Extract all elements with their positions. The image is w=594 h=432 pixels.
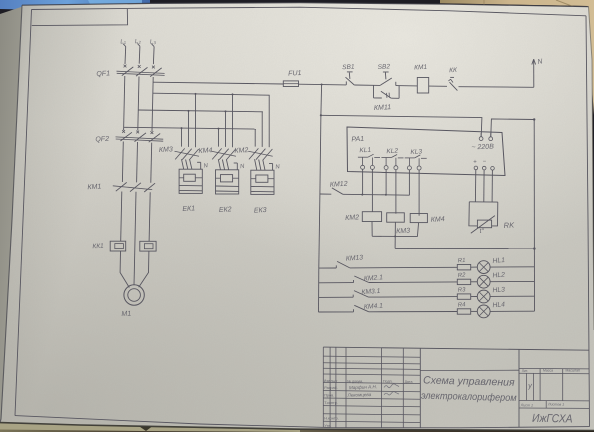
wire lamp row 1 right: [490, 266, 534, 268]
wire lamp row 4 middle: [369, 311, 458, 313]
svg-text:R1: R1: [458, 258, 466, 265]
svg-text:КМ11: КМ11: [374, 104, 392, 112]
svg-text:SB1: SB1: [342, 64, 355, 72]
auxiliary contact КМ13: [336, 261, 350, 268]
wire group2 pole1 to heater: [218, 159, 220, 170]
wire KK to N riser: [459, 86, 534, 89]
svg-text:HL3: HL3: [492, 286, 505, 294]
svg-text:КК1: КК1: [92, 243, 104, 251]
resistor R4: [457, 309, 470, 314]
wire dropper group3 pole1: [254, 129, 256, 147]
svg-text:~ 220В: ~ 220В: [471, 144, 494, 152]
svg-text:KL3: KL3: [410, 148, 422, 156]
svg-text:КМ1: КМ1: [414, 64, 428, 72]
power terminals ~220V of PA1: [479, 133, 492, 141]
svg-text:HL1: HL1: [492, 257, 505, 265]
wire QF2 pole2 to KM1: [136, 142, 139, 182]
svg-text:Лист 1: Лист 1: [520, 403, 533, 407]
svg-text:Н.контр.: Н.контр.: [324, 417, 339, 421]
wire lamp row 2 right: [490, 280, 534, 282]
svg-text:электрокалорифером: электрокалорифером: [421, 390, 517, 404]
heater ЕК1 box: [179, 169, 202, 193]
lamp HL2: [477, 275, 490, 288]
wire dropper group3 pole2: [261, 112, 263, 147]
resistor R1: [457, 265, 470, 270]
contactor coil KM1: [417, 78, 428, 94]
svg-text:R2: R2: [458, 273, 467, 280]
svg-text:Подп.: Подп.: [383, 380, 393, 384]
svg-text:КМ2.1: КМ2.1: [364, 274, 384, 282]
svg-text:FU1: FU1: [288, 70, 302, 78]
svg-text:ЕК2: ЕК2: [219, 206, 232, 214]
relay contact KL1 inside PA1: [358, 154, 380, 169]
contactor coil KM4: [410, 214, 427, 223]
svg-text:Листов 1: Листов 1: [547, 402, 564, 406]
circuit breaker QF2: [116, 130, 164, 142]
heater ЕК2 element: [221, 175, 233, 182]
svg-text:Масштаб: Масштаб: [566, 368, 581, 372]
auxiliary contact KM1.2: [361, 194, 363, 196]
wire phase riser down (left): [320, 85, 323, 116]
wire lamp row 3 right: [490, 295, 534, 297]
signature scribble 2: [384, 392, 399, 395]
contactor contacts КМ4: [212, 148, 237, 160]
paper top edge: [22, 3, 589, 7]
neutral connection of ЕК1: [200, 162, 202, 169]
wire lamp row 4 right: [490, 310, 534, 312]
wire SB1 to SB2: [354, 84, 380, 86]
wire lamp row 2 middle: [369, 281, 458, 284]
svg-text:Утв.: Утв.: [324, 424, 331, 428]
motor M1: [124, 285, 144, 305]
pushbutton SB2 (NO): [380, 72, 396, 86]
contactor coil KM3: [387, 213, 405, 222]
wire SB2 to KM1 coil: [396, 85, 418, 87]
svg-text:КМ3.1: КМ3.1: [361, 288, 381, 296]
svg-text:М1: М1: [121, 310, 131, 318]
heater ЕК1 element: [184, 174, 196, 181]
paper left edge: [0, 5, 22, 422]
svg-text:QF2: QF2: [95, 136, 109, 144]
svg-text:ЕК3: ЕК3: [254, 207, 267, 215]
wire resistor to lamp 1: [471, 266, 478, 268]
terminal stubs KL3: [408, 170, 410, 196]
svg-text:ИжГСХА: ИжГСХА: [532, 413, 573, 426]
wire resistor to lamp 2: [471, 281, 478, 283]
svg-text:КМ12: КМ12: [330, 181, 348, 189]
svg-text:КМ3: КМ3: [159, 146, 173, 154]
svg-text:КМ2: КМ2: [234, 147, 248, 155]
paper bottom edge: [0, 423, 594, 431]
svg-text:Разраб.: Разраб.: [324, 386, 338, 390]
wire KM1 pole1 down: [121, 192, 122, 242]
contactor contacts КМ3: [175, 148, 200, 160]
neutral connection of ЕК3: [272, 164, 274, 171]
wire lamp row 3 left: [319, 296, 354, 298]
wire QF1 pole3 to QF2: [152, 77, 153, 131]
wire lamp row 3 middle: [369, 296, 458, 299]
svg-text:Дата: Дата: [405, 380, 413, 384]
svg-text:КМ3: КМ3: [396, 228, 410, 236]
relay contact KL3 inside PA1: [405, 155, 427, 170]
top-left stamp box: [32, 9, 128, 26]
paper right edge: [589, 7, 594, 330]
svg-text:HL2: HL2: [492, 272, 505, 280]
wire dropper group1 pole2: [188, 111, 190, 147]
wire QF1 pole2 to QF2: [138, 77, 139, 131]
drawing border frame: [32, 7, 587, 16]
wire dropper group1 pole1: [181, 128, 183, 147]
fuse FU1: [283, 81, 298, 87]
sensor terminals of PA1: [474, 166, 494, 170]
svg-text:Лекомцева: Лекомцева: [347, 392, 372, 398]
wire dropper group2 pole1: [218, 129, 220, 147]
controller PA1 box: [347, 127, 505, 176]
svg-text:КМ13: КМ13: [346, 254, 364, 262]
wire group1 pole1 to heater: [182, 159, 184, 169]
wire lamp row 4 left: [318, 311, 353, 313]
lamp HL4: [477, 305, 490, 318]
svg-text:Лит.: Лит.: [522, 369, 528, 373]
auxiliary contact КМ4.1: [354, 305, 369, 312]
heater ЕК3 element: [256, 175, 268, 182]
wire group2 pole3 to heater: [227, 160, 229, 170]
wire FU1 to SB1: [299, 83, 347, 86]
svg-text:КМ4: КМ4: [198, 147, 212, 155]
svg-text:t°: t°: [479, 227, 484, 235]
lamp HL1: [477, 261, 490, 274]
svg-text:Т.контр.: Т.контр.: [324, 401, 338, 405]
svg-text:−: −: [483, 159, 487, 165]
svg-text:Марфин А.Н.: Марфин А.Н.: [349, 384, 377, 390]
svg-text:Схема управления: Схема управления: [423, 374, 515, 388]
title block: [323, 347, 589, 428]
svg-text:Лист: Лист: [331, 379, 338, 383]
supply line L1: [124, 47, 127, 65]
wire group3 pole3 to heater: [263, 160, 265, 170]
thermistor RK: [477, 220, 491, 228]
wires PA1 to RK sensor: [474, 170, 476, 202]
svg-text:KL2: KL2: [386, 148, 398, 156]
wire KK1 B to motor: [139, 251, 149, 287]
auxiliary contact KM1.1 bypass: [374, 85, 400, 98]
svg-text:L1: L1: [120, 39, 126, 46]
arrow to neutral N: [532, 59, 536, 87]
signature scribble 1: [384, 384, 399, 388]
svg-text:KL1: KL1: [359, 147, 371, 155]
svg-text:SB2: SB2: [378, 63, 391, 71]
wire dropper group2 pole2: [225, 111, 227, 146]
thermal relay contact KK (NC): [448, 77, 457, 90]
wire resistor to lamp 3: [471, 296, 478, 298]
wire three-phase bus from pole3: [153, 93, 270, 95]
wire phase to PA1 power terminal: [321, 115, 482, 136]
wire KM1 pole2 down: [134, 192, 136, 273]
wire group1 pole2 to heater: [186, 160, 188, 170]
svg-text:Масса: Масса: [543, 369, 553, 373]
wire lamp row 2 left: [319, 282, 354, 284]
thermal relay KK1 heater element A: [110, 241, 126, 251]
svg-text:R3: R3: [458, 287, 467, 294]
supply line L2: [138, 46, 141, 64]
lit massa masshtab headers: [522, 368, 580, 373]
svg-text:Пров.: Пров.: [324, 394, 334, 398]
wire KK1 A to motor: [120, 251, 129, 288]
wire lamp row 1 left: [319, 267, 337, 269]
wire coils common to N riser: [395, 247, 534, 249]
contactor coil KM2: [362, 212, 381, 222]
resistor R3: [457, 294, 470, 299]
thermistor RK loop: [469, 201, 498, 203]
svg-text:№ докум.: № докум.: [347, 379, 363, 383]
wire KM1 pole3 down: [149, 192, 150, 241]
wire dropper group3 pole3: [268, 95, 270, 147]
wire N to PA1 power terminal: [491, 119, 534, 137]
resistor R2: [457, 279, 470, 284]
wire group2 pole2 to heater: [222, 160, 224, 170]
svg-text:КМ2: КМ2: [345, 214, 359, 222]
wire QF2 pole3 to KM1: [150, 143, 153, 183]
wire group1 pole3 to heater: [190, 160, 192, 169]
svg-text:QF1: QF1: [96, 70, 110, 78]
wire KM1 pole2 to motor: [133, 273, 135, 286]
wire QF2 pole1 to KM1: [121, 142, 124, 183]
wire coil bottoms common: [371, 222, 373, 237]
wire control feed to FU1: [153, 82, 283, 84]
wire group3 pole1 to heater: [255, 159, 257, 170]
svg-text:КМ4: КМ4: [431, 216, 445, 224]
lamp HL3: [477, 290, 490, 303]
wire lamp row 1 middle: [350, 266, 458, 269]
svg-text:КМ1: КМ1: [87, 183, 101, 191]
terminal stubs KL1: [362, 169, 364, 194]
title block header texts: [324, 379, 413, 428]
neutral connection of ЕК2: [236, 163, 238, 170]
auxiliary contact КМ2.1: [354, 276, 369, 283]
contactor main contacts KM1: [113, 182, 155, 192]
wire three-phase bus from pole1: [124, 127, 256, 129]
wire QF1 pole1 to QF2: [124, 76, 125, 130]
supply line L3: [152, 47, 155, 65]
relay contact KL2 inside PA1: [381, 155, 403, 170]
wire group3 pole2 to heater: [259, 160, 261, 171]
wire three-phase bus from pole2: [138, 110, 263, 112]
svg-text:RK: RK: [503, 220, 515, 230]
svg-text:+: +: [473, 159, 477, 165]
wire N riser down: [533, 120, 535, 249]
svg-text:КМ4.1: КМ4.1: [364, 303, 384, 311]
wire dropper group2 pole3: [232, 94, 234, 147]
wire dropper group1 pole3: [195, 94, 197, 147]
terminal stubs KL2: [385, 170, 387, 196]
contactor contacts КМ2: [248, 148, 273, 160]
auxiliary contact КМ3.1: [353, 291, 368, 298]
circuit breaker QF1: [117, 65, 165, 77]
pushbutton SB1 (NC): [346, 72, 355, 85]
svg-text:HL4: HL4: [492, 301, 505, 309]
svg-text:ЕК1: ЕК1: [182, 205, 195, 213]
wire KM1 coil to KK: [429, 85, 447, 87]
heater ЕК3 box: [251, 170, 274, 194]
svg-text:РА1: РА1: [351, 136, 364, 144]
thermal relay KK1 heater element B: [140, 241, 156, 251]
heater ЕК2 box: [216, 170, 239, 194]
wire resistor to lamp 4: [471, 310, 478, 312]
svg-text:R4: R4: [458, 302, 467, 309]
